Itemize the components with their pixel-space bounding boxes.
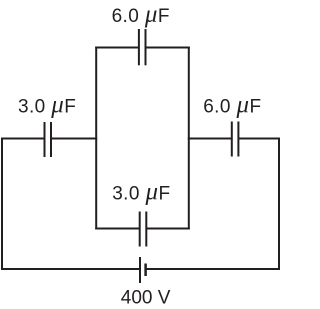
- wire: inner box left vertical: [95, 47, 97, 230]
- svg-text:6.0 μF: 6.0 μF: [112, 1, 170, 28]
- capacitor C2 6.0 uF top plates: [138, 29, 140, 65]
- capacitor C1 3.0 uF left plates: [44, 122, 46, 157]
- battery V1 long plate: [139, 257, 141, 283]
- wire: outer right vertical: [278, 138, 280, 271]
- capacitor C4 6.0 uF right plates: [231, 122, 233, 157]
- wire: inner box top right segment from C2: [146, 47, 190, 49]
- wire: inner box right vertical: [188, 47, 190, 230]
- capacitor C3 3.0 uF bottom plates: [139, 212, 141, 247]
- wire: outer left vertical: [1, 138, 3, 271]
- svg-text:400 V: 400 V: [121, 288, 171, 309]
- battery V1 short plate: [144, 264, 147, 277]
- wire: inner box top left segment to C2: [95, 47, 139, 49]
- svg-text:6.0 μF: 6.0 μF: [203, 92, 261, 119]
- wire: inner box bottom right segment from C3: [146, 228, 190, 230]
- wire: middle right horizontal from C4 to outer right: [238, 138, 280, 140]
- wire: middle left horizontal from C1 to inner box: [51, 138, 97, 140]
- wire: middle left horizontal to capacitor C1: [1, 138, 45, 140]
- svg-text:3.0 μF: 3.0 μF: [112, 178, 170, 205]
- wire: inner box bottom left segment to C3: [95, 228, 140, 230]
- wire: bottom right segment from battery: [146, 268, 280, 270]
- wire: middle right horizontal from inner box to C4: [188, 138, 232, 140]
- svg-text:3.0 μF: 3.0 μF: [18, 92, 76, 119]
- wire: bottom left segment to battery: [1, 268, 140, 270]
